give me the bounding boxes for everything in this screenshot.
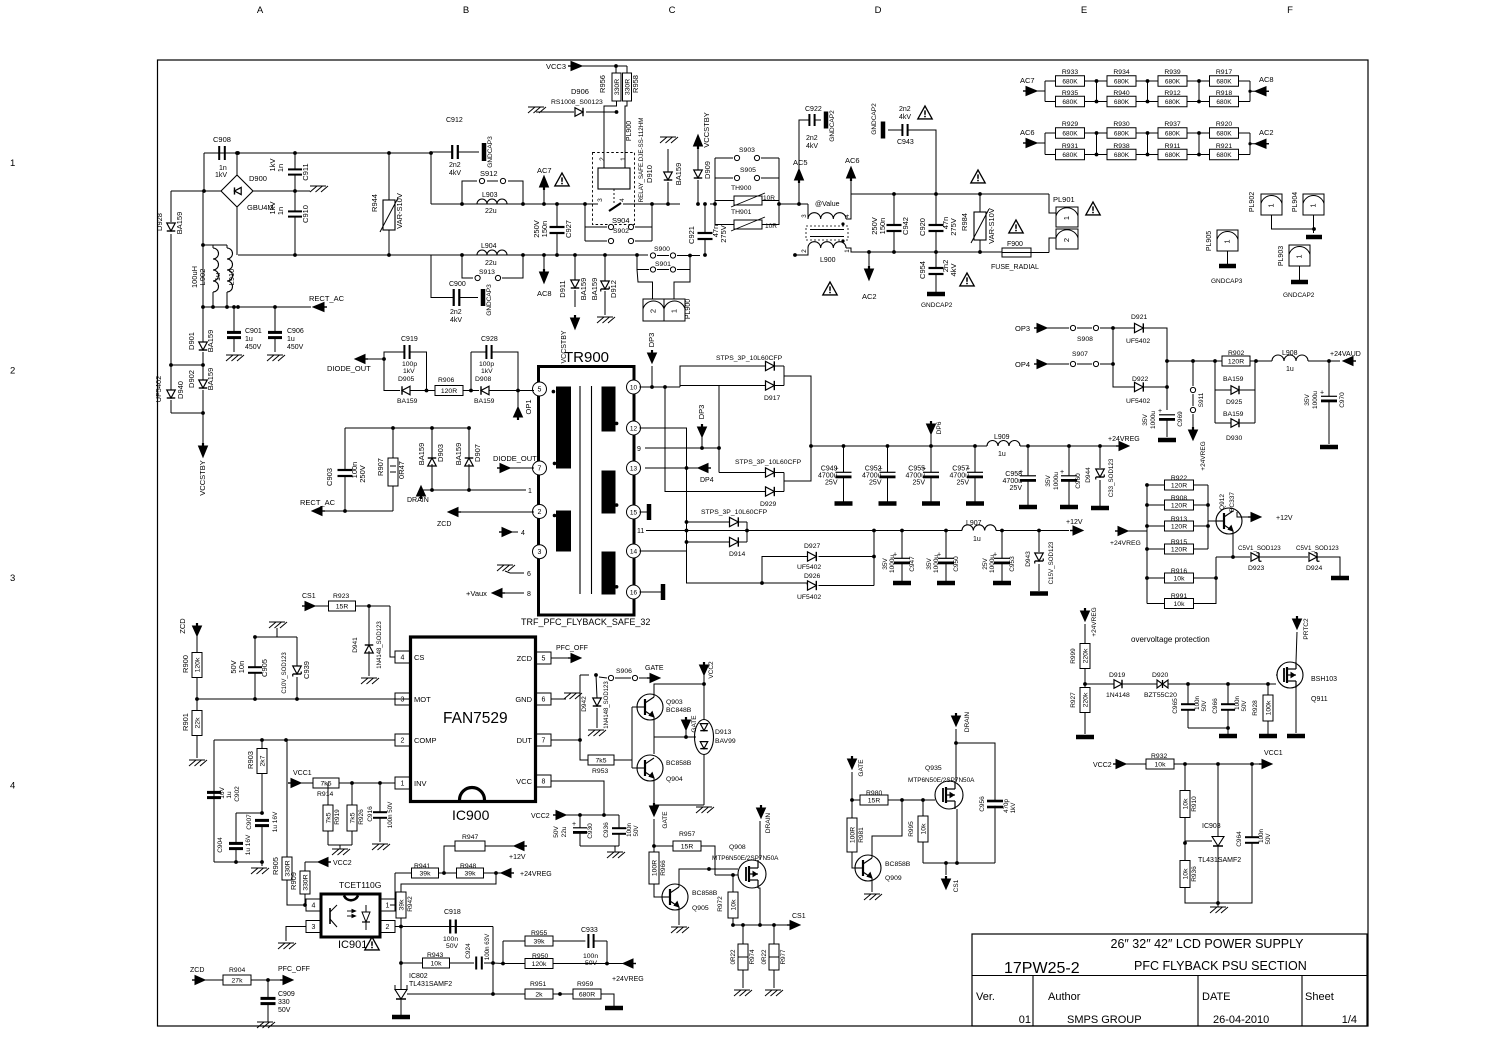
svg-text:OP3: OP3 xyxy=(1015,324,1030,333)
svg-text:22u: 22u xyxy=(561,826,568,837)
capacitor C907 1u 16V xyxy=(255,819,269,822)
svg-text:C970: C970 xyxy=(1339,392,1346,408)
wire D917b feed xyxy=(680,385,766,387)
gndcap electrode GNDCAP3 at C912 xyxy=(482,143,487,161)
svg-text:C956: C956 xyxy=(979,796,986,812)
svg-text:1kV: 1kV xyxy=(1010,802,1017,814)
svg-text:35V: 35V xyxy=(1045,475,1052,487)
svg-text:C965: C965 xyxy=(1172,698,1179,714)
svg-text:D909: D909 xyxy=(703,161,712,179)
svg-text:5: 5 xyxy=(542,656,546,663)
svg-text:2: 2 xyxy=(386,924,390,931)
svg-text:C939: C939 xyxy=(302,661,311,679)
wire +24V rail xyxy=(811,445,987,447)
net +24VREG arrow to ladder xyxy=(1118,527,1128,536)
net DRAIN down arrow 2 xyxy=(757,808,766,818)
svg-text:C958: C958 xyxy=(1005,471,1022,478)
svg-text:+: + xyxy=(1158,408,1162,415)
svg-text:1u: 1u xyxy=(1286,366,1294,373)
snubber loop C928/D908 xyxy=(471,351,486,353)
transformer pin 7 xyxy=(533,461,547,475)
capacitor C936 100n 50V xyxy=(612,827,626,829)
resistor R910 10k xyxy=(1180,791,1190,818)
wire bridge top xyxy=(236,153,238,175)
net GATE down arrow at D913 xyxy=(682,720,691,730)
zener D943 C15V_SOD123 xyxy=(1038,531,1040,553)
net CS1 down arrow xyxy=(942,879,951,889)
gndcap electrode GNDCAP2 PL903 xyxy=(1291,280,1308,285)
IC900 pin 4 CS xyxy=(395,651,410,663)
svg-text:50V: 50V xyxy=(446,943,459,950)
svg-text:TH901: TH901 xyxy=(731,209,752,216)
svg-text:Ver.: Ver. xyxy=(976,991,995,1003)
svg-text:D944: D944 xyxy=(1085,467,1092,483)
svg-text:C903: C903 xyxy=(325,468,334,486)
svg-text:R980: R980 xyxy=(866,790,882,797)
net AC2 down arrow xyxy=(865,269,874,280)
jumper S911 xyxy=(1192,361,1194,386)
wire node row 413 xyxy=(171,412,203,414)
wire R941 to IC901 pin1 xyxy=(390,873,395,905)
svg-text:7k5: 7k5 xyxy=(321,780,332,787)
svg-text:UF5402: UF5402 xyxy=(1126,338,1150,345)
svg-text:120R: 120R xyxy=(1171,482,1187,489)
svg-text:A: A xyxy=(257,5,264,16)
svg-text:BA159: BA159 xyxy=(674,163,683,186)
svg-text:C957: C957 xyxy=(952,466,969,473)
capacitor C906 1u 450V xyxy=(268,331,282,334)
svg-text:PFC FLYBACK PSU SECTION: PFC FLYBACK PSU SECTION xyxy=(1134,959,1307,973)
svg-text:BC858B: BC858B xyxy=(885,861,911,868)
svg-text:100R: 100R xyxy=(651,860,658,876)
svg-text:R930: R930 xyxy=(1113,121,1129,128)
svg-text:0R22: 0R22 xyxy=(730,949,737,965)
svg-text:1N4148: 1N4148 xyxy=(1106,692,1130,699)
svg-text:10k: 10k xyxy=(1174,601,1186,608)
svg-text:CS1: CS1 xyxy=(302,593,316,600)
svg-text:4: 4 xyxy=(521,530,525,537)
svg-text:680K: 680K xyxy=(1062,99,1078,106)
wire bottom node row xyxy=(214,861,262,863)
svg-text:S906: S906 xyxy=(616,668,632,675)
wire OP3/OP4 common node xyxy=(1113,328,1134,387)
svg-text:680K: 680K xyxy=(1165,130,1181,137)
svg-text:2: 2 xyxy=(538,509,542,516)
svg-text:C918: C918 xyxy=(444,909,461,916)
capacitor C910 xyxy=(288,210,302,212)
svg-text:D919: D919 xyxy=(1109,672,1125,679)
diode D902 BA159 xyxy=(199,380,208,388)
svg-text:100n: 100n xyxy=(1194,696,1201,710)
transistor Q905 BC858B xyxy=(662,884,688,910)
svg-text:470p: 470p xyxy=(1003,799,1010,813)
IC900 pin 7 DUT xyxy=(536,734,551,746)
capacitor C969 35V 1000u xyxy=(1159,414,1175,416)
svg-text:D913: D913 xyxy=(715,729,731,736)
svg-text:+24VAUD: +24VAUD xyxy=(1330,351,1361,358)
svg-text:PL900: PL900 xyxy=(685,299,692,319)
snubber loop C919/D905 xyxy=(384,352,404,359)
svg-text:01: 01 xyxy=(1019,1014,1031,1026)
svg-text:L904: L904 xyxy=(481,243,497,250)
wire C918 bypass xyxy=(492,927,494,964)
svg-text:VAR-S10V: VAR-S10V xyxy=(987,208,996,244)
svg-text:39k: 39k xyxy=(465,870,477,877)
wire pin2 node down xyxy=(400,927,402,990)
wire D921 out to R902 xyxy=(1167,360,1209,362)
svg-text:120R: 120R xyxy=(1171,523,1187,530)
wire C922 to rail1 xyxy=(799,120,809,204)
wire bridge bottom xyxy=(236,207,238,255)
svg-text:RS1008_S00123: RS1008_S00123 xyxy=(551,99,603,106)
svg-text:680K: 680K xyxy=(1165,99,1181,106)
capacitor C954 2n2 4kV xyxy=(929,267,944,269)
svg-text:R910: R910 xyxy=(1191,796,1198,812)
svg-text:+12V: +12V xyxy=(1066,519,1083,526)
svg-text:RECT_AC: RECT_AC xyxy=(300,498,336,507)
capacitor C908 xyxy=(218,146,220,160)
svg-text:Q911: Q911 xyxy=(1311,696,1328,703)
svg-text:R916: R916 xyxy=(1171,568,1187,575)
svg-text:C911: C911 xyxy=(301,163,310,180)
diode D929 b xyxy=(766,487,775,496)
svg-text:R900: R900 xyxy=(181,655,190,673)
svg-text:22u: 22u xyxy=(485,260,497,267)
svg-text:16V: 16V xyxy=(219,787,226,799)
svg-text:1: 1 xyxy=(386,903,390,910)
svg-text:1: 1 xyxy=(670,309,679,313)
svg-text:R947: R947 xyxy=(462,834,478,841)
svg-text:R914: R914 xyxy=(317,791,333,798)
svg-text:C950: C950 xyxy=(953,556,960,572)
svg-text:R966: R966 xyxy=(660,860,667,876)
zener C939 C10V_SOD123 xyxy=(293,666,302,674)
svg-text:1n: 1n xyxy=(276,164,285,172)
svg-text:D906: D906 xyxy=(571,87,589,96)
svg-text:450V: 450V xyxy=(245,344,262,351)
svg-text:DP6: DP6 xyxy=(936,421,943,434)
svg-text:11: 11 xyxy=(637,528,644,535)
svg-text:C5V1_SOD123: C5V1_SOD123 xyxy=(1296,545,1339,552)
net VCC2 arrow at pin8 xyxy=(556,811,566,820)
transformer secondary winding bar 3 xyxy=(602,552,615,594)
svg-text:S900: S900 xyxy=(654,246,670,253)
switch S902 lower xyxy=(585,240,607,242)
net +24VREG down arrow xyxy=(1189,430,1198,440)
svg-text:C955: C955 xyxy=(908,466,925,473)
svg-text:275V: 275V xyxy=(949,218,958,236)
svg-text:GNDCAP2: GNDCAP2 xyxy=(921,302,953,309)
wire TL431 ref to R910 xyxy=(1185,841,1212,843)
svg-text:C902: C902 xyxy=(234,786,241,802)
svg-text:DUT: DUT xyxy=(517,736,533,745)
svg-text:C964: C964 xyxy=(1236,831,1243,847)
power ground R959 xyxy=(605,1006,623,1011)
capacitor C960 35V 1000u xyxy=(1068,446,1070,476)
wire cap bottoms xyxy=(580,845,619,847)
svg-text:R957: R957 xyxy=(679,831,695,838)
svg-text:C919: C919 xyxy=(401,336,418,343)
svg-text:OP4: OP4 xyxy=(1015,360,1030,369)
svg-text:VCC2: VCC2 xyxy=(1093,762,1112,769)
wire AC rail upper right xyxy=(894,193,1049,195)
svg-text:C908: C908 xyxy=(213,135,231,144)
svg-text:VCC1: VCC1 xyxy=(1264,750,1283,757)
svg-text:330R: 330R xyxy=(614,79,621,95)
svg-text:Q905: Q905 xyxy=(692,905,709,912)
wire IC901 pin2 row xyxy=(395,926,401,928)
resistor R905 330R xyxy=(282,857,292,880)
wire pin10 node xyxy=(640,386,681,388)
svg-text:1: 1 xyxy=(1267,203,1276,207)
transistor Q904 BC858B xyxy=(637,755,663,781)
svg-text:1u: 1u xyxy=(287,336,295,343)
svg-text:39k: 39k xyxy=(398,899,405,911)
chassis ground IC901 pin3 xyxy=(286,927,306,942)
power ground PL904 xyxy=(1306,235,1322,240)
svg-text:C904: C904 xyxy=(217,837,224,853)
wire L900 pin1 to right xyxy=(846,248,894,252)
svg-text:1: 1 xyxy=(620,157,627,161)
svg-text:R919: R919 xyxy=(334,809,341,825)
svg-text:C924: C924 xyxy=(465,943,472,959)
ladder bus xyxy=(1146,485,1148,604)
transformer pin 2 xyxy=(533,505,547,519)
svg-text:1kV: 1kV xyxy=(481,368,493,375)
svg-text:C15V_SOD123: C15V_SOD123 xyxy=(1048,541,1055,584)
svg-text:TR900: TR900 xyxy=(564,349,609,366)
wire Q904 collector down xyxy=(654,778,704,805)
svg-text:R984: R984 xyxy=(960,213,969,231)
wire D929 join to rail xyxy=(775,472,785,474)
svg-text:D925: D925 xyxy=(1226,399,1242,406)
svg-text:4: 4 xyxy=(10,781,15,792)
svg-text:AC8: AC8 xyxy=(537,289,552,298)
wire Q903 collector to VCC2 xyxy=(654,675,704,697)
svg-text:10n: 10n xyxy=(237,661,246,674)
wire thermistor block left bus xyxy=(710,158,715,204)
svg-text:1kV: 1kV xyxy=(403,368,415,375)
resistor R936 10k xyxy=(1180,861,1190,888)
svg-text:22u: 22u xyxy=(485,208,497,215)
svg-text:C947: C947 xyxy=(909,556,916,572)
warning triangle right xyxy=(1009,220,1023,233)
svg-text:7k5: 7k5 xyxy=(349,812,356,823)
wire C902 branch xyxy=(213,740,215,862)
wire Q904 emitter to output row xyxy=(653,737,655,754)
svg-text:Author: Author xyxy=(1048,991,1081,1003)
zener D941 1N4148_SOD123 xyxy=(365,645,374,653)
svg-text:35V: 35V xyxy=(1142,414,1149,426)
svg-text:275V: 275V xyxy=(719,225,728,243)
net DRAIN arrow up xyxy=(417,486,426,496)
svg-text:R929: R929 xyxy=(1062,121,1078,128)
wire rail1 main AC row xyxy=(431,203,598,205)
svg-text:14: 14 xyxy=(630,549,638,556)
diode D907 BA159 xyxy=(465,458,474,466)
svg-text:B: B xyxy=(463,5,469,16)
svg-text:17PW25-2: 17PW25-2 xyxy=(1004,960,1080,977)
svg-text:D908: D908 xyxy=(475,376,491,383)
diode D903 BA159 xyxy=(428,458,437,466)
svg-text:PL905: PL905 xyxy=(1206,231,1213,251)
capacitor C901 1u 450V xyxy=(227,331,241,334)
svg-text:D929: D929 xyxy=(760,501,776,508)
resistor R909 330R xyxy=(300,871,310,894)
svg-text:1000u: 1000u xyxy=(1053,472,1060,490)
svg-text:DP3: DP3 xyxy=(647,333,656,348)
diode D940 UF5402 xyxy=(167,390,176,398)
svg-text:C969: C969 xyxy=(1177,411,1184,427)
svg-text:680K: 680K xyxy=(1114,130,1130,137)
svg-text:BA159: BA159 xyxy=(579,278,588,301)
svg-text:S913: S913 xyxy=(479,269,495,276)
wire thermistor block right bus xyxy=(778,158,780,225)
svg-text:C922: C922 xyxy=(805,106,822,113)
svg-text:R923: R923 xyxy=(333,593,349,600)
svg-text:R995: R995 xyxy=(908,821,915,837)
net PRTC2 down arrow xyxy=(1293,619,1302,629)
svg-text:S911: S911 xyxy=(1198,392,1205,407)
IC900 pin 6 GND xyxy=(536,693,551,705)
svg-text:150n: 150n xyxy=(878,218,887,235)
capacitor C966 100n 50V xyxy=(1221,703,1235,705)
zener D942 1N4148_SOD123 xyxy=(593,698,602,706)
svg-text:R944: R944 xyxy=(370,194,379,212)
wire AC rail lower right xyxy=(894,251,1002,253)
svg-text:R906: R906 xyxy=(438,377,454,384)
svg-text:TH900: TH900 xyxy=(731,185,752,192)
svg-text:15: 15 xyxy=(630,510,638,517)
capacitor C904 1u 16V xyxy=(229,842,243,845)
svg-text:16: 16 xyxy=(630,590,638,597)
svg-text:100n 50V: 100n 50V xyxy=(387,801,394,828)
wire bridge right to C911 column xyxy=(253,190,295,192)
svg-text:2: 2 xyxy=(401,738,405,745)
svg-text:GATE: GATE xyxy=(858,759,865,777)
dual diode D913 BAV99 xyxy=(695,720,714,755)
resistor R999 220k xyxy=(1080,644,1090,669)
svg-text:AC7: AC7 xyxy=(537,166,552,175)
svg-text:D923: D923 xyxy=(1248,565,1264,572)
svg-text:4kV: 4kV xyxy=(806,143,818,150)
wire ladder right join xyxy=(1207,485,1209,549)
power ground Q911 xyxy=(1287,734,1305,739)
svg-text:GND: GND xyxy=(515,695,532,704)
svg-text:D930: D930 xyxy=(1226,435,1242,442)
svg-text:RELAY_SAFE.DJE-SS-112HM: RELAY_SAFE.DJE-SS-112HM xyxy=(638,118,645,203)
varistor R944 VAR-S10V xyxy=(383,200,395,230)
svg-text:Q903: Q903 xyxy=(666,699,683,706)
resistor R907 0R47 xyxy=(388,458,398,486)
svg-text:1u: 1u xyxy=(213,273,222,281)
svg-text:VCC2: VCC2 xyxy=(531,813,550,820)
svg-text:SMPS GROUP: SMPS GROUP xyxy=(1067,1014,1142,1026)
power ground C966 xyxy=(1219,734,1237,739)
snubber rail over primary xyxy=(345,427,469,429)
svg-text:4kV: 4kV xyxy=(450,317,462,324)
svg-text:TL431SAMF2: TL431SAMF2 xyxy=(409,981,452,988)
net +12V arrow from Q912 xyxy=(1237,512,1250,517)
wire Q909 collector xyxy=(872,800,902,858)
svg-text:AC7: AC7 xyxy=(1020,76,1035,85)
svg-text:2k7: 2k7 xyxy=(259,755,266,766)
svg-text:15R: 15R xyxy=(868,797,881,804)
svg-text:100R: 100R xyxy=(849,827,856,843)
svg-text:R915: R915 xyxy=(1171,539,1187,546)
wire CS1 row xyxy=(733,924,790,926)
svg-text:1u: 1u xyxy=(973,536,981,543)
svg-text:FAN7529: FAN7529 xyxy=(443,710,508,727)
svg-text:R956: R956 xyxy=(598,75,607,93)
svg-text:L907: L907 xyxy=(966,520,982,527)
svg-text:S907: S907 xyxy=(1072,351,1088,358)
transformer core lines xyxy=(579,386,581,594)
svg-text:Q904: Q904 xyxy=(666,776,683,783)
svg-text:AC6: AC6 xyxy=(845,156,860,165)
zener D944 C33_SOD123 xyxy=(1099,446,1101,468)
svg-text:UF5402: UF5402 xyxy=(797,594,821,601)
wire TL431 ref xyxy=(407,993,493,995)
svg-text:10k: 10k xyxy=(1182,798,1189,810)
svg-text:C966: C966 xyxy=(1212,698,1219,714)
svg-text:S902: S902 xyxy=(613,228,629,235)
svg-text:PL904: PL904 xyxy=(1292,192,1299,212)
resistor R956 330R xyxy=(612,73,621,101)
wire R919/R926 bottoms xyxy=(328,844,352,846)
border frame xyxy=(158,60,1369,1026)
svg-text:R901: R901 xyxy=(181,713,190,731)
chassis ground C906 xyxy=(267,355,274,361)
svg-text:+: + xyxy=(1320,390,1324,397)
svg-text:+: + xyxy=(1060,469,1064,476)
svg-text:25V: 25V xyxy=(957,480,970,487)
svg-text:PL901: PL901 xyxy=(1053,195,1075,204)
svg-text:PL902: PL902 xyxy=(1249,192,1256,212)
svg-text:2: 2 xyxy=(10,366,15,377)
wire driver base link xyxy=(631,707,633,768)
svg-text:1: 1 xyxy=(528,488,532,495)
svg-text:VCC2: VCC2 xyxy=(708,661,715,679)
svg-text:R917: R917 xyxy=(1216,69,1232,76)
svg-text:2n2: 2n2 xyxy=(899,106,911,113)
svg-text:DRAIN: DRAIN xyxy=(964,712,971,733)
wire rail to C912 xyxy=(431,152,452,153)
svg-text:1u: 1u xyxy=(245,336,253,343)
svg-text:R933: R933 xyxy=(1062,69,1078,76)
svg-text:450V: 450V xyxy=(287,344,304,351)
transformer pin 5 xyxy=(533,382,547,396)
svg-text:39k: 39k xyxy=(534,938,546,945)
wire C911 column xyxy=(294,153,296,169)
svg-text:100k: 100k xyxy=(1265,700,1272,715)
svg-text:35V: 35V xyxy=(926,558,933,570)
svg-text:1u 16V: 1u 16V xyxy=(272,811,279,832)
svg-text:10k: 10k xyxy=(1182,868,1189,880)
svg-text:15R: 15R xyxy=(336,603,349,610)
svg-text:D907: D907 xyxy=(473,444,482,462)
svg-text:GNDCAP2: GNDCAP2 xyxy=(871,103,878,135)
chassis ground D942 xyxy=(588,730,595,736)
svg-text:120R: 120R xyxy=(1228,358,1244,365)
svg-text:10k: 10k xyxy=(1174,575,1186,582)
svg-text:120R: 120R xyxy=(441,388,457,395)
wire rail2 main AC row xyxy=(431,254,648,256)
net VCCSTBY up arrow xyxy=(694,135,703,146)
wire VCC3 to resistors xyxy=(582,65,627,67)
svg-text:R926: R926 xyxy=(358,809,365,825)
diode D901 BA159 xyxy=(199,342,208,350)
